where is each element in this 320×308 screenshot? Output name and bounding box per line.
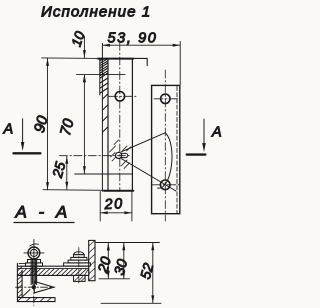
L bracket bottom leg (17, 298, 55, 302)
pivot axis vertical (33, 240, 35, 261)
arm inner line (17, 268, 88, 270)
pin local hatch (110, 140, 131, 169)
arm top edge (17, 265, 88, 267)
column pin body (31, 260, 36, 285)
dimension 20 bottom of left plate (100, 192, 132, 222)
extension line for 20/30 (99, 278, 130, 280)
pin horizontal centerline (59, 155, 131, 157)
lower hole centerline (152, 184, 181, 186)
right bar plate section (89, 240, 95, 280)
dimension 20 (A-A) (95, 243, 115, 278)
washer step 1 (28, 260, 41, 263)
dimension 10 (69, 29, 88, 82)
L bracket leg hatch (17, 267, 22, 302)
swing arc (158, 133, 172, 188)
hook triangle (34, 281, 54, 293)
L bracket vertical leg (17, 264, 22, 302)
dimension 90 (31, 58, 52, 190)
bolt 2 centerline (78, 248, 80, 284)
hook diagonal (22, 290, 30, 298)
wall strip outer edge (99, 59, 101, 95)
hook pivot dot (32, 285, 36, 289)
label A - A (14, 203, 74, 223)
dimension 25 (49, 156, 69, 189)
axis top tick (30, 244, 39, 246)
svg-text:53, 90: 53, 90 (108, 31, 158, 47)
section arrow A right (187, 119, 222, 155)
left plate bottom thick edge (104, 190, 133, 192)
extension line y=189.7 (43, 189, 105, 192)
hook vertical centerline (33, 284, 35, 306)
hatch wall strip (100, 59, 108, 132)
dimension 70 (57, 75, 86, 174)
wall top thick edge (98, 58, 133, 60)
dimension 52 (A-A) (138, 243, 158, 303)
bolt 2 step 1 (74, 255, 85, 258)
dimension 30 (A-A) (112, 243, 132, 279)
bolt 2 dome head (74, 252, 85, 255)
bolt 2 nut hatch (75, 276, 86, 281)
wall strip left edge (101, 44, 103, 192)
pin slot (122, 153, 128, 157)
top line to right of bar (95, 242, 159, 244)
extension line for 52 (101, 302, 161, 304)
arm hatch (20, 269, 89, 275)
extension line y=74.6 (77, 74, 126, 76)
svg-text:20: 20 (103, 196, 124, 213)
right plate centerline (164, 70, 166, 221)
right plate upper hole (161, 94, 170, 103)
upper hole centerline (154, 98, 178, 100)
svg-text:A: A (3, 122, 14, 138)
hook horizontal centerline (16, 286, 55, 288)
hole centerline horizontal (109, 95, 136, 97)
wire top edge / extension line (42, 57, 99, 60)
svg-text:A - A: A - A (15, 203, 72, 222)
top edge thin continuation with hook (133, 58, 147, 65)
svg-text:Исполнение 1: Исполнение 1 (41, 3, 151, 20)
right bar hatch (89, 241, 95, 281)
washer step 2 (26, 263, 43, 266)
pivot ring inner (30, 249, 37, 256)
bottom leg hatch (26, 298, 51, 302)
bolt 2 step 2 (71, 257, 87, 260)
right plate hidden line (176, 87, 178, 214)
hole upper-left plate (115, 92, 124, 101)
step line left of column (19, 262, 26, 264)
svg-text:A: A (211, 125, 222, 141)
dimension 53,90 (102, 31, 180, 86)
right plate outline (152, 85, 180, 213)
pivot ring cross horizontal (24, 252, 44, 254)
left plate feature line y=174 (75, 173, 133, 175)
bolt 2 nut (74, 275, 86, 281)
left plate vertical centerline (119, 43, 121, 192)
pivot ring outer (28, 247, 40, 259)
arm bottom edge (17, 274, 88, 276)
swing line upper (121, 133, 165, 152)
left plate right edge (131, 59, 133, 191)
wall strip right edge / plate left edge (107, 59, 109, 191)
bolt 2 step 3 (68, 260, 89, 263)
bolt 2 washer (64, 263, 91, 266)
pin pivot (116, 152, 122, 158)
section arrow A left (3, 119, 41, 154)
right plate lower hole (160, 180, 170, 190)
swing line lower (121, 159, 176, 191)
